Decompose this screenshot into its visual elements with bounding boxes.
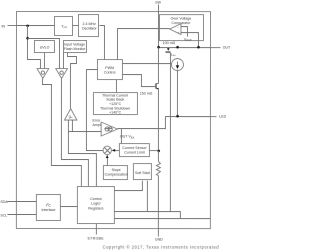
node IN junction A	[26, 25, 29, 28]
svg-text:Control: Control	[104, 71, 116, 75]
wire comparator ref stub	[180, 27, 187, 37]
wire T1 output to control logic	[42, 79, 81, 187]
wire flash monitor to buffer amp apex	[67, 53, 76, 109]
multiplier M1	[103, 146, 111, 154]
wire PWM gate drive	[122, 75, 155, 87]
wire multiplier to PWM	[86, 70, 103, 151]
svg-text:2.4 MHz: 2.4 MHz	[82, 22, 96, 26]
svg-text:Oscillator: Oscillator	[82, 27, 98, 31]
svg-text:Flash Monitor: Flash Monitor	[64, 47, 87, 51]
wire ground rail B	[114, 218, 210, 220]
svg-text:+140°C: +140°C	[109, 111, 122, 115]
wire ground rail A	[114, 212, 180, 219]
wire T2 output to control logic	[61, 79, 88, 187]
wire current sense tap	[149, 150, 158, 152]
wire error amp input from control logic	[68, 132, 96, 187]
svg-text:LED: LED	[219, 115, 226, 119]
svg-text:Control: Control	[90, 197, 102, 201]
wire PWM enable to current source	[122, 63, 172, 65]
pin SDA	[0, 200, 36, 204]
chip outer border	[16, 12, 210, 229]
svg-text:150 mΩ: 150 mΩ	[140, 91, 153, 95]
svg-text:Compensation: Compensation	[105, 173, 128, 177]
pin SCL	[0, 213, 36, 217]
pin LED	[210, 115, 226, 119]
op-amp U3 error amplifier	[101, 122, 117, 136]
svg-text:I2C: I2C	[46, 202, 51, 207]
buffer amp A2	[64, 109, 77, 120]
buffer triangle T1	[37, 69, 49, 79]
wire A2 input right	[71, 120, 73, 132]
wire UVLO to driver T1	[43, 53, 45, 69]
block Tref	[54, 17, 72, 36]
wire I2C to control logic	[60, 206, 77, 208]
block PWM control	[97, 60, 122, 80]
wire OVP output to PWM	[117, 29, 169, 60]
svg-text:Soft Start: Soft Start	[135, 171, 150, 175]
wire output power rail	[158, 47, 210, 49]
wire error amp output to LED node	[117, 117, 210, 129]
svg-text:SDA: SDA	[0, 200, 8, 204]
pin OUT	[210, 46, 231, 50]
wire Vea to current sense	[120, 129, 122, 144]
transistor Q2 sense FET	[165, 48, 176, 58]
node LED junction	[176, 115, 179, 118]
svg-text:IN: IN	[1, 25, 5, 29]
svg-text:STROBE: STROBE	[87, 237, 104, 241]
svg-text:GND: GND	[155, 238, 163, 242]
node IN junction B	[26, 37, 29, 40]
node SW junction	[157, 46, 160, 49]
block I2C interface	[36, 195, 60, 221]
svg-text:+: +	[177, 31, 179, 35]
block UVLO	[34, 41, 54, 53]
svg-text:UVLO: UVLO	[40, 45, 50, 49]
label error amplifier	[92, 119, 107, 127]
svg-text:PWM: PWM	[105, 66, 114, 70]
svg-text:+125°C: +125°C	[109, 102, 122, 106]
node sense junction	[157, 150, 160, 153]
svg-text:Interface: Interface	[41, 208, 55, 212]
node OUT feedback junction	[197, 46, 200, 49]
svg-text:OUT: OUT	[223, 46, 231, 50]
wire error amp input	[68, 131, 101, 133]
pin STROBE	[87, 224, 104, 241]
wire NMOS source to sense node	[157, 89, 159, 151]
pin SW	[155, 0, 161, 47]
transistor Q1 NMOS switch	[140, 48, 159, 96]
wire soft start to ground rail	[146, 181, 148, 212]
pin GND	[155, 238, 163, 242]
svg-text:Slope: Slope	[112, 168, 121, 172]
svg-text:Current Limit: Current Limit	[124, 151, 145, 155]
block slope compensation	[103, 166, 127, 180]
wire slope comp to multiplier	[106, 155, 109, 166]
block 2.4 MHz oscillator	[78, 15, 98, 37]
block input voltage flash monitor	[63, 41, 86, 53]
block current sense current limit	[119, 144, 149, 157]
wire IN down branch	[27, 26, 40, 69]
node current source top junction	[176, 46, 179, 49]
comparator U2	[170, 24, 181, 35]
wire UVLO sense branch	[27, 39, 59, 69]
svg-text:Input Voltage: Input Voltage	[64, 43, 85, 47]
block over voltage comparator	[159, 15, 203, 43]
svg-text:SCL: SCL	[0, 213, 7, 217]
wire sense FET to ground rail	[169, 53, 171, 212]
buffer triangle T2	[56, 69, 68, 79]
wire A2 input left	[67, 120, 69, 132]
svg-text:Current Sense/: Current Sense/	[122, 146, 146, 150]
svg-text:Copyright © 2017, Texas Instru: Copyright © 2017, Texas Instruments Inco…	[103, 244, 220, 249]
wire oscillator to PWM control	[99, 26, 104, 60]
svg-text:SW: SW	[155, 0, 161, 4]
current source I1	[171, 59, 183, 71]
wire Tref to oscillator	[72, 25, 78, 27]
resistor R1 sense	[156, 151, 160, 237]
wire PWM to thermal block	[115, 80, 117, 93]
wire soft start to control logic	[114, 181, 142, 191]
svg-text:Logic/: Logic/	[91, 202, 101, 206]
svg-text:Registers: Registers	[88, 206, 103, 210]
block thermal shutdown	[93, 93, 137, 115]
svg-text:Over Voltage: Over Voltage	[171, 16, 192, 20]
wire flash monitor to T2 input	[62, 53, 64, 69]
pin IN	[1, 25, 16, 29]
wire IN rail to Tref	[16, 25, 54, 27]
svg-text:100 mΩ: 100 mΩ	[163, 41, 176, 45]
wire current source to LED node	[176, 70, 178, 117]
block control logic registers	[77, 187, 114, 224]
wire OUT feedback to comparator	[180, 33, 198, 48]
block soft start	[133, 164, 151, 180]
wire current sense to multiplier	[112, 149, 120, 152]
